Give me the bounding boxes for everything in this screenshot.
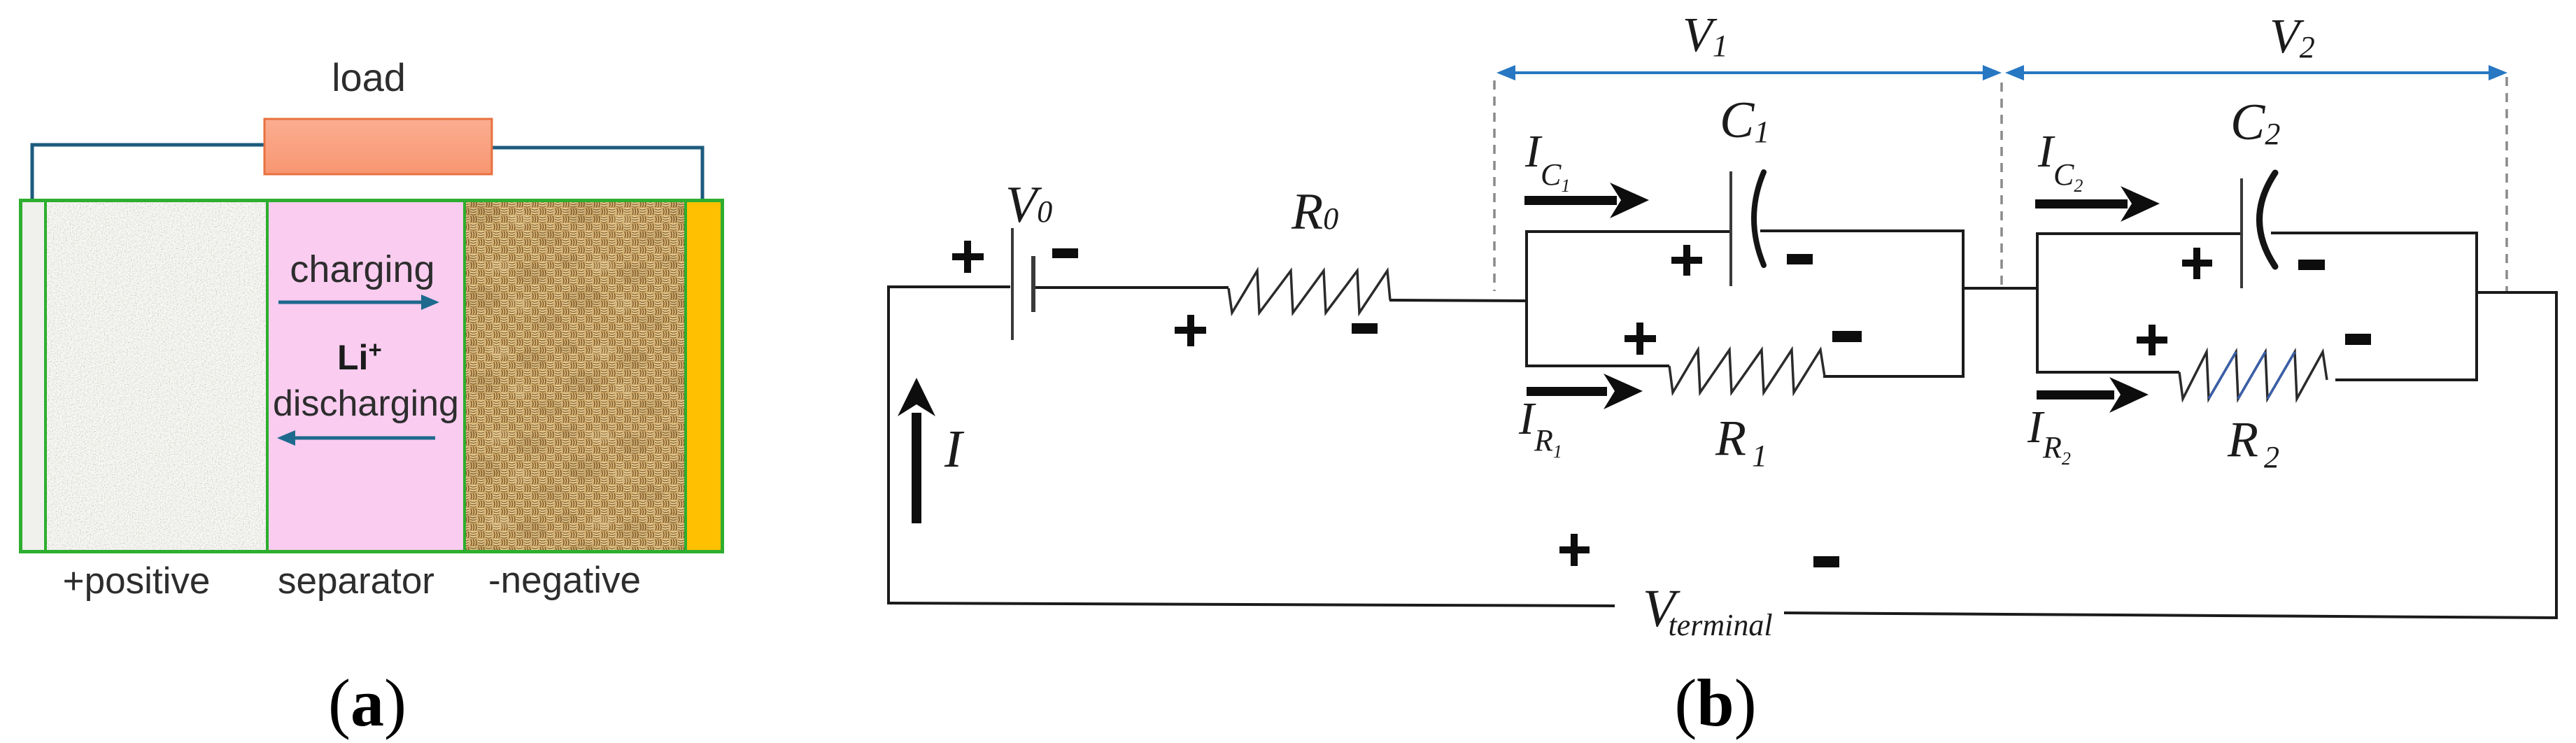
svg-text:V2: V2 <box>2270 10 2315 64</box>
svg-text:(a): (a) <box>328 665 406 740</box>
svg-text:(b): (b) <box>1674 665 1756 740</box>
svg-text:IC2: IC2 <box>2037 126 2083 196</box>
svg-text:discharging: discharging <box>273 383 459 424</box>
svg-text:-negative: -negative <box>488 560 641 601</box>
svg-text:C1: C1 <box>1720 92 1769 149</box>
svg-text:charging: charging <box>290 248 434 290</box>
svg-text:V0: V0 <box>1005 176 1052 234</box>
svg-text:separator: separator <box>278 560 434 602</box>
svg-text:IC1: IC1 <box>1524 126 1570 196</box>
svg-text:Vterminal: Vterminal <box>1643 579 1773 642</box>
svg-text:C2: C2 <box>2230 94 2280 151</box>
svg-text:IR1: IR1 <box>1518 393 1562 462</box>
svg-text:IR2: IR2 <box>2027 402 2071 469</box>
svg-text:+positive: +positive <box>63 560 211 602</box>
svg-text:load: load <box>332 55 406 99</box>
svg-text:I: I <box>944 420 965 479</box>
svg-text:V1: V1 <box>1683 8 1728 63</box>
svg-text:R2: R2 <box>2227 411 2279 474</box>
svg-text:R0: R0 <box>1291 183 1338 241</box>
svg-text:R1: R1 <box>1715 410 1767 473</box>
